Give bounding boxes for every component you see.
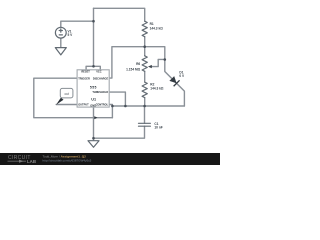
svg-text:R6: R6 — [136, 62, 140, 66]
svg-text:CONTROL: CONTROL — [96, 102, 109, 106]
svg-text:DISCHARGE: DISCHARGE — [93, 76, 109, 80]
svg-text:GND: GND — [90, 104, 96, 108]
svg-text:555: 555 — [90, 85, 97, 89]
svg-text:http://circuitlab.com/c/6387GW: http://circuitlab.com/c/6387GW4y5c5 — [43, 159, 92, 163]
svg-text:144.3 kΩ: 144.3 kΩ — [150, 87, 164, 91]
svg-text:TRIGGER: TRIGGER — [78, 76, 90, 80]
svg-text:out: out — [64, 92, 69, 96]
svg-text:RESET: RESET — [81, 70, 90, 74]
svg-text:THRESHOLD: THRESHOLD — [92, 90, 108, 94]
svg-text:U1: U1 — [91, 98, 96, 102]
svg-text:LAB: LAB — [27, 159, 36, 164]
svg-text:10 nF: 10 nF — [154, 126, 162, 130]
svg-text:OUTPUT: OUTPUT — [78, 102, 89, 106]
svg-text:VCC: VCC — [96, 70, 102, 74]
svg-text:1.154 MΩ: 1.154 MΩ — [126, 67, 141, 71]
svg-text:144.3 kΩ: 144.3 kΩ — [150, 26, 164, 30]
